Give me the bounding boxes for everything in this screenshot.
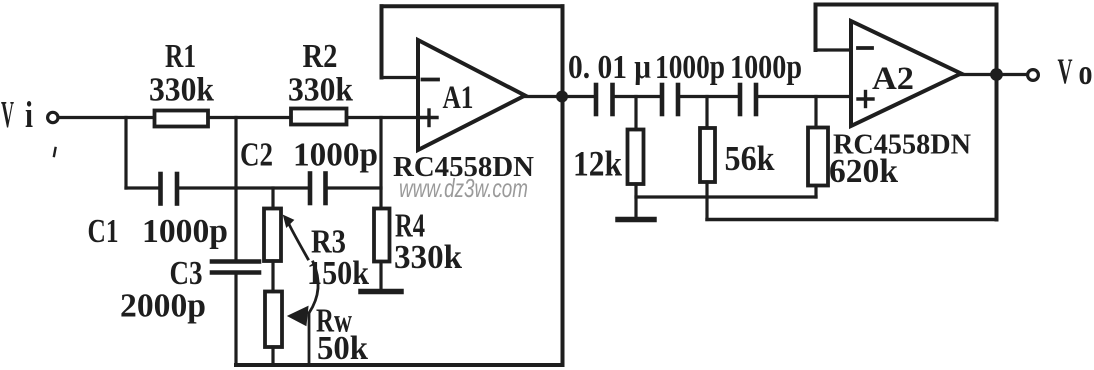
wire node down to C1	[124, 118, 127, 189]
wire 12k column	[634, 97, 637, 130]
label A2	[872, 61, 914, 97]
label R3	[307, 224, 369, 293]
svg-text:o: o	[1079, 52, 1093, 92]
wire cap2 to cap3	[679, 95, 739, 98]
capacitor C1	[161, 174, 178, 204]
wire 620k column	[814, 97, 817, 128]
A2 feedback right vertical	[995, 5, 999, 220]
label C1	[88, 213, 229, 250]
svg-text:1000p: 1000p	[293, 137, 378, 174]
A1 feedback top wire	[382, 4, 563, 8]
svg-text:V: V	[1058, 51, 1073, 91]
svg-text:C3: C3	[170, 255, 203, 292]
wire to C1 left plate	[126, 186, 159, 189]
wire 620k bottom stub	[814, 186, 817, 198]
stray tick mark	[54, 148, 56, 156]
label C2	[240, 137, 378, 174]
label Vi	[1, 94, 33, 136]
capacitor 1000p second	[662, 85, 678, 114]
A1 plus sign	[422, 110, 438, 126]
svg-text:C2: C2	[240, 137, 273, 174]
svg-text:C1: C1	[88, 213, 119, 250]
svg-text:330k: 330k	[149, 72, 214, 109]
svg-text:R2: R2	[303, 38, 338, 75]
resistor R1	[155, 111, 209, 127]
svg-text:RC4558DN: RC4558DN	[833, 130, 971, 161]
svg-text:1000p: 1000p	[142, 213, 228, 250]
A1 minus sign	[423, 78, 439, 82]
watermark www.dz3w.com	[399, 173, 528, 203]
wire node to C2 left plate	[236, 186, 309, 189]
resistor R3	[264, 209, 281, 262]
svg-text:R1: R1	[165, 38, 196, 75]
op-amp A1	[418, 40, 525, 150]
wire C3 to bottom rail	[234, 273, 237, 366]
input terminal Vi	[48, 112, 58, 122]
svg-text:A2: A2	[872, 61, 914, 97]
A1 minus input wire	[382, 76, 418, 79]
label 1000p third	[730, 49, 802, 86]
svg-text:56k: 56k	[725, 139, 775, 178]
A2 minus sign	[858, 46, 872, 50]
svg-text:1000p: 1000p	[655, 49, 725, 86]
label 12k	[573, 144, 622, 184]
capacitor C3	[212, 262, 259, 273]
capacitor 0.01u	[596, 85, 613, 114]
svg-text:2000p: 2000p	[120, 288, 206, 325]
resistor R4	[374, 209, 390, 262]
svg-text:12k: 12k	[573, 144, 622, 184]
label 0.01u	[568, 49, 651, 86]
ground under R4	[361, 289, 401, 295]
wire 56k column	[705, 97, 708, 129]
A2 minus input wire	[816, 48, 852, 51]
label Vo	[1058, 51, 1093, 92]
svg-text:1000p: 1000p	[730, 49, 802, 86]
capacitor 1000p third	[740, 85, 756, 114]
label C3	[120, 255, 206, 325]
node A2 output	[990, 68, 1003, 81]
A2 feedback top wire	[816, 3, 997, 7]
svg-text:A1: A1	[443, 80, 474, 116]
wire C2 right plate to R4 column	[327, 186, 382, 189]
wire Rw to bottom rail	[271, 347, 274, 365]
resistor 12k	[628, 130, 644, 185]
label Rw	[316, 303, 368, 368]
label R4	[394, 208, 462, 277]
wire R4 to ground	[379, 262, 382, 290]
wire lower rail 56k to A2 output vertical	[707, 218, 997, 221]
A1 feedback right vertical	[561, 6, 565, 365]
svg-text:V: V	[1, 94, 14, 136]
A1 feedback left vertical	[380, 6, 384, 77]
wire cap1 to cap2	[614, 95, 662, 98]
A2 feedback left vertical	[814, 5, 818, 51]
label 1000p second	[655, 49, 725, 86]
svg-text:50k: 50k	[317, 330, 368, 367]
A2 output wire	[961, 73, 1027, 76]
label R1	[149, 38, 214, 109]
label RC4558DN A2	[833, 130, 971, 161]
wire ground rail 12k to 620k	[636, 195, 816, 198]
svg-text:0. 01 μ: 0. 01 μ	[568, 49, 651, 86]
wire cap3 to A2 plus input	[757, 95, 851, 98]
label 620k	[829, 153, 898, 190]
wire R2 to A1 plus input	[347, 116, 419, 119]
op-amp A2	[851, 21, 961, 126]
wire Vi to R1	[59, 116, 155, 119]
wire 56k down to lower rail	[705, 182, 708, 220]
ground under 12k	[618, 217, 654, 223]
potentiometer Rw	[265, 292, 282, 348]
resistor 56k	[700, 128, 715, 182]
wire R4 column from main wire	[379, 118, 382, 209]
output terminal Vo	[1028, 70, 1039, 81]
svg-text:330k: 330k	[288, 72, 353, 109]
wire stub to R3	[271, 188, 274, 209]
label 56k	[725, 139, 775, 178]
wiper arrow for Rw	[288, 262, 318, 365]
resistor 620k	[808, 128, 828, 186]
label RC4558DN A1	[393, 152, 534, 183]
label R2	[288, 38, 353, 109]
wire main node down to C3	[234, 118, 237, 262]
capacitor C2	[310, 174, 326, 204]
wire R1 to R2	[208, 116, 291, 119]
svg-text:330k: 330k	[394, 239, 462, 276]
node A1 output	[556, 91, 568, 103]
bottom rail	[236, 363, 563, 367]
arrow for R3	[284, 216, 309, 260]
resistor R2	[291, 109, 347, 125]
svg-text:i: i	[25, 95, 33, 136]
A1 output wire	[525, 95, 595, 98]
wire 12k to ground	[634, 184, 637, 216]
A2 plus sign	[858, 92, 873, 107]
wire R3 to Rw	[271, 261, 274, 292]
svg-text:www.dz3w.com: www.dz3w.com	[399, 173, 528, 203]
wire C1 right plate to node	[178, 186, 236, 189]
label A1	[443, 80, 474, 116]
